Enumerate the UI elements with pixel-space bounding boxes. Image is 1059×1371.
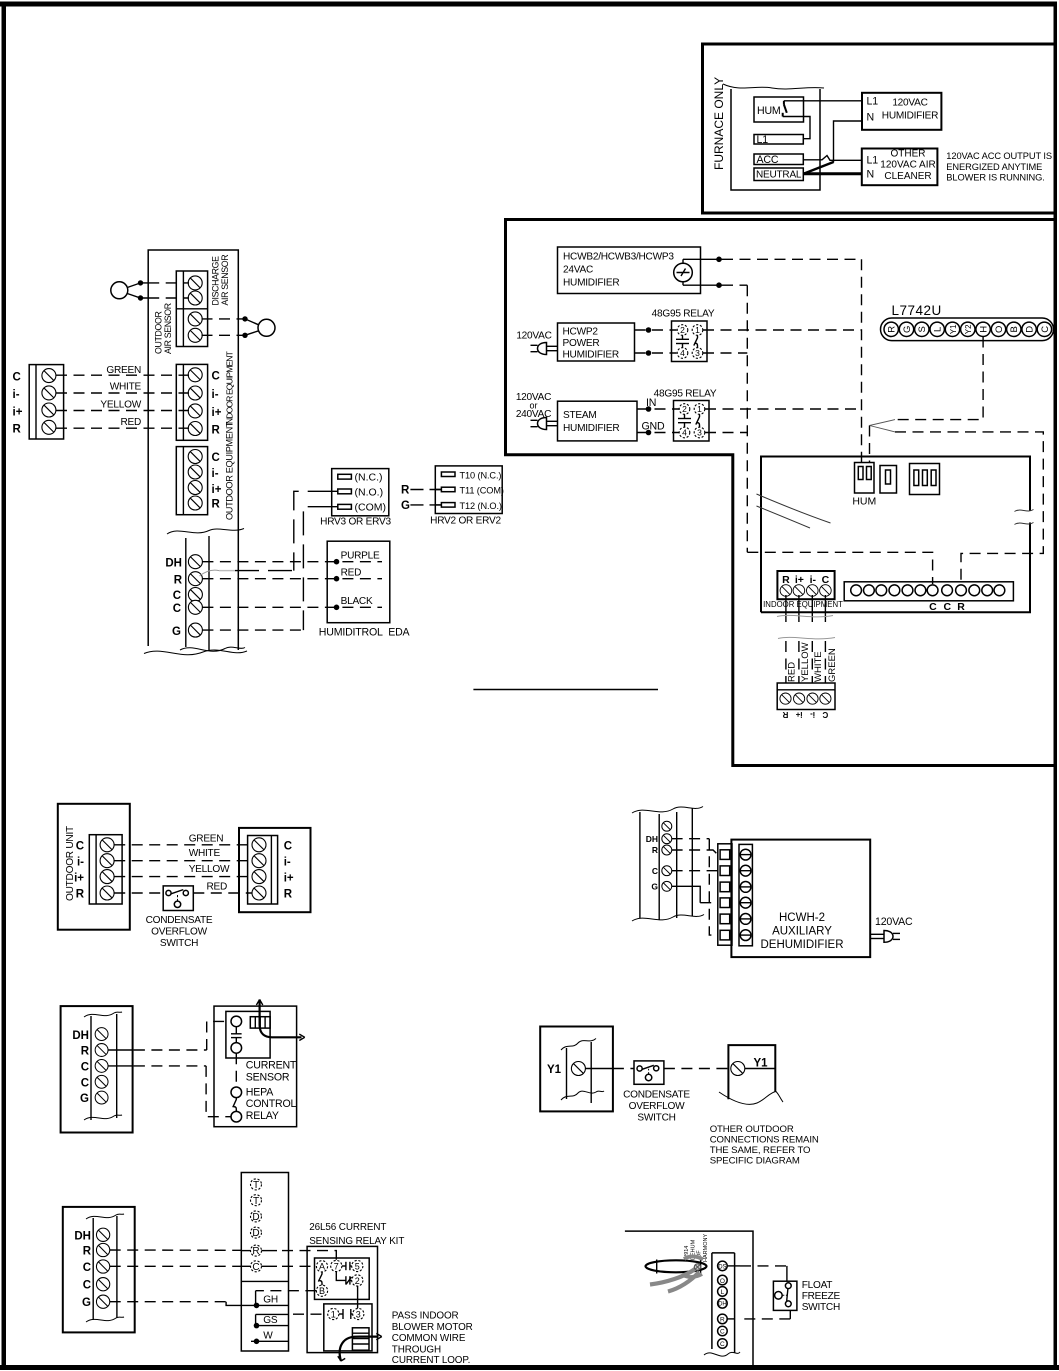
svg-text:HUMIDIFIER: HUMIDIFIER xyxy=(882,111,938,122)
L7742U terminal L xyxy=(930,322,944,336)
wire right loop to R terminal xyxy=(895,432,1043,584)
capacitor 1-3 xyxy=(339,1309,353,1319)
svg-text:i+: i+ xyxy=(74,873,84,885)
wire DH to square6 xyxy=(672,839,718,935)
svg-text:3: 3 xyxy=(356,1309,361,1319)
svg-text:i-: i- xyxy=(212,389,219,401)
svg-text:HUMIDITROL EDA: HUMIDITROL EDA xyxy=(319,627,411,639)
L7742U terminal G xyxy=(899,322,913,336)
pliers graphic xyxy=(650,1256,703,1291)
outdoor air sensor bulb xyxy=(258,319,275,336)
right block labels xyxy=(284,841,294,901)
svg-text:T: T xyxy=(253,1196,259,1207)
HEPA control relay xyxy=(231,1087,242,1122)
L7742U terminal D xyxy=(1022,322,1036,336)
svg-text:B: B xyxy=(319,1286,325,1296)
svg-text:H: H xyxy=(979,326,990,333)
svg-text:1: 1 xyxy=(695,325,700,335)
relay2 pin 1 xyxy=(694,404,705,415)
terminal L1 xyxy=(754,134,803,146)
DH strip bottom tear xyxy=(180,647,245,651)
svg-text:DH: DH xyxy=(74,1231,91,1243)
svg-text:RED: RED xyxy=(341,568,362,579)
right terminal block xyxy=(248,836,278,905)
svg-text:i-: i- xyxy=(13,389,20,401)
svg-text:O: O xyxy=(720,1278,725,1285)
wire panel G to GH xyxy=(110,1302,289,1309)
48G95 relay 1 box xyxy=(672,321,708,362)
outdoor unit labels xyxy=(74,841,85,901)
right panel (indoor) xyxy=(239,828,311,912)
relay inner box 1 xyxy=(315,1258,370,1299)
wire ACC to L1 air cleaner xyxy=(803,156,862,161)
RED label and dot xyxy=(334,568,361,582)
R to HRV3 leader xyxy=(200,570,294,576)
furnace panel xyxy=(723,84,824,190)
indoor equipment terminal labels xyxy=(212,371,222,437)
svg-text:WHITE: WHITE xyxy=(813,651,824,682)
svg-text:(N.C.): (N.C.) xyxy=(355,472,383,484)
wire YELLOW xyxy=(56,410,189,412)
svg-text:C: C xyxy=(944,601,952,613)
svg-text:R: R xyxy=(174,575,183,587)
wire HCWP2 to relay1 pin2 xyxy=(635,327,677,333)
svg-text:i+: i+ xyxy=(284,873,294,885)
wire relay2 pin1 to HUM trunk xyxy=(705,408,862,410)
switch A-B xyxy=(318,1272,322,1285)
indoor equipment screws xyxy=(780,585,831,597)
svg-text:C: C xyxy=(822,574,830,586)
plug symbol steam xyxy=(531,418,558,430)
plug symbol HCWP2 xyxy=(531,343,558,355)
svg-text:SWITCH: SWITCH xyxy=(160,938,198,949)
FLOAT FREEZE SWITCH label xyxy=(802,1280,841,1313)
wire HUM to L1 humidifier xyxy=(784,100,862,102)
wire Y1 to switch xyxy=(585,1068,634,1070)
svg-text:YELLOW: YELLOW xyxy=(100,400,141,411)
svg-text:RED: RED xyxy=(207,881,228,892)
wire C to relay pin A xyxy=(282,1265,316,1267)
svg-text:R: R xyxy=(83,1246,92,1258)
svg-text:HUM: HUM xyxy=(852,496,876,508)
svg-text:Y1: Y1 xyxy=(754,1058,769,1070)
svg-text:C: C xyxy=(1040,326,1051,333)
relay1 pin 4 xyxy=(677,348,688,359)
svg-text:STEAM: STEAM xyxy=(563,410,597,421)
panel screws xyxy=(96,1228,109,1308)
left dashed trunk wire x747 xyxy=(746,285,748,552)
svg-text:48G95 RELAY: 48G95 RELAY xyxy=(652,309,715,320)
svg-text:THROUGH: THROUGH xyxy=(392,1344,441,1355)
svg-text:CURRENT LOOP.: CURRENT LOOP. xyxy=(392,1355,470,1366)
outdoor air sensor screws xyxy=(188,312,202,342)
C C R labels xyxy=(929,601,965,613)
relay1 switch symbol xyxy=(694,335,698,347)
wire DH to PURPLE xyxy=(202,561,382,563)
svg-text:WHITE: WHITE xyxy=(110,382,142,393)
svg-text:HEPA: HEPA xyxy=(246,1087,274,1099)
svg-text:3: 3 xyxy=(695,348,700,358)
svg-text:OVERFLOW: OVERFLOW xyxy=(629,1101,685,1112)
svg-text:SENSOR: SENSOR xyxy=(246,1072,290,1084)
connector 2 xyxy=(880,466,897,494)
12 terminal strip xyxy=(844,582,1013,601)
panel box xyxy=(61,1006,133,1132)
wire pin B to GH xyxy=(256,1291,317,1306)
discharge air sensor screws xyxy=(188,276,202,305)
svg-text:AIR SENSOR: AIR SENSOR xyxy=(220,255,230,306)
wire pin2 down to pin3 xyxy=(357,1286,359,1308)
DH strip screws xyxy=(188,555,202,637)
svg-text:i+: i+ xyxy=(212,407,222,419)
svg-text:4: 4 xyxy=(682,428,687,438)
svg-text:C: C xyxy=(652,866,658,876)
svg-text:G: G xyxy=(80,1093,89,1105)
svg-text:NEUTRAL: NEUTRAL xyxy=(756,170,802,181)
gray tear across wires lower xyxy=(778,637,835,638)
note text 120VAC ACC xyxy=(946,151,1052,183)
svg-text:i-: i- xyxy=(212,468,219,480)
svg-text:DISCHARGE: DISCHARGE xyxy=(211,256,221,306)
wire left trunk to C terminal xyxy=(747,552,932,584)
svg-text:G: G xyxy=(902,326,913,333)
svg-text:C: C xyxy=(13,372,21,384)
DISCHARGE AIR SENSOR label xyxy=(211,255,231,306)
svg-text:SWITCH: SWITCH xyxy=(802,1302,840,1313)
svg-text:GREEN: GREEN xyxy=(189,834,224,845)
svg-text:C: C xyxy=(720,1329,725,1336)
svg-text:BLOWER IS RUNNING.: BLOWER IS RUNNING. xyxy=(946,173,1044,183)
plug symbol HCWH xyxy=(870,931,900,943)
svg-text:120VAC: 120VAC xyxy=(516,331,551,342)
svg-text:D: D xyxy=(252,1228,259,1239)
wire steam GND to relay2 pin4 xyxy=(637,430,679,436)
wire panel R to sub-base R xyxy=(110,1249,277,1252)
wire C to square2 xyxy=(672,870,718,872)
svg-text:FREEZE: FREEZE xyxy=(802,1291,841,1302)
svg-text:SENSING RELAY KIT: SENSING RELAY KIT xyxy=(309,1236,404,1247)
wire switch to right panel xyxy=(664,1068,729,1070)
HEPA CONTROL RELAY labels xyxy=(246,1087,297,1123)
other 120VAC air cleaner box xyxy=(862,149,938,186)
indoor equipment block xyxy=(176,364,207,440)
wire G to HRV3 COM trunk xyxy=(202,629,303,631)
svg-text:WHITE: WHITE xyxy=(189,848,221,859)
L7742U terminal S xyxy=(915,322,929,336)
svg-text:G: G xyxy=(172,626,181,638)
OUTDOOR AIR SENSOR label xyxy=(154,303,174,354)
wire RED xyxy=(56,427,189,429)
svg-text:AUXILIARY: AUXILIARY xyxy=(772,926,832,938)
pin 3 xyxy=(353,1308,364,1319)
relay1 coil symbol xyxy=(676,335,689,347)
svg-text:PASS INDOOR: PASS INDOOR xyxy=(392,1311,459,1322)
L7742U terminal Y2 xyxy=(961,322,975,336)
svg-text:2: 2 xyxy=(355,1276,360,1286)
wire 24VAC hum top to HUM trunk xyxy=(683,257,862,263)
wire GREEN outdoor xyxy=(114,844,252,846)
outdoor equipment terminal labels xyxy=(212,452,222,511)
svg-text:L7742U: L7742U xyxy=(892,303,942,318)
terminal D1 xyxy=(251,1211,262,1223)
svg-text:120VAC ACC OUTPUT IS: 120VAC ACC OUTPUT IS xyxy=(946,151,1052,161)
120VAC or 240VAC label xyxy=(516,392,551,420)
cable tear marks left xyxy=(757,494,831,528)
pin 7 xyxy=(331,1260,342,1271)
svg-text:R: R xyxy=(212,499,221,511)
L7742U terminal strip xyxy=(881,318,1054,341)
svg-text:OTHER OUTDOOR: OTHER OUTDOOR xyxy=(710,1124,794,1135)
HRV2 terminal stubs xyxy=(435,490,441,505)
svg-text:Y2: Y2 xyxy=(964,325,973,335)
wire NEUTRAL to N air cleaner xyxy=(803,172,862,175)
26L56 labels xyxy=(309,1222,404,1247)
terminal T2 xyxy=(251,1195,262,1207)
svg-text:SWITCH: SWITCH xyxy=(637,1113,675,1124)
svg-text:C: C xyxy=(720,1341,725,1348)
svg-text:D: D xyxy=(252,1212,259,1223)
svg-text:S: S xyxy=(917,326,928,332)
BLACK label and dot xyxy=(334,596,373,610)
relay2 pin 3 xyxy=(694,427,705,438)
L7742U terminal B xyxy=(1007,322,1021,336)
svg-text:O: O xyxy=(994,326,1005,333)
svg-text:T10 (N.C.): T10 (N.C.) xyxy=(460,470,502,480)
page border frame bottom xyxy=(0,1365,1059,1370)
partial panel strip xyxy=(632,807,704,922)
panel inner strip xyxy=(84,1012,122,1120)
svg-text:INDOOR EQUIPMENT: INDOOR EQUIPMENT xyxy=(763,600,843,609)
PURPLE label and dot xyxy=(334,551,380,565)
wire HUM switch bottom to L1 terminal xyxy=(783,117,810,139)
svg-text:120VAC AIR: 120VAC AIR xyxy=(880,160,935,171)
HCWH-2 labels xyxy=(760,912,843,951)
lower block labels upside down R i+ i- C xyxy=(782,710,828,719)
svg-text:FLOAT: FLOAT xyxy=(802,1280,833,1291)
wire panel C to sub-base C xyxy=(110,1265,277,1267)
wire HRV3 NO down to R xyxy=(294,491,332,570)
wire float switch to R xyxy=(727,1310,790,1319)
wire loop graphic xyxy=(646,1260,707,1274)
wire R to relay pin7 xyxy=(282,1251,336,1260)
svg-text:T12 (N.O.): T12 (N.O.) xyxy=(460,501,502,511)
svg-text:i+: i+ xyxy=(795,710,802,719)
panel corner xyxy=(625,1231,753,1365)
wire relay1 pin3 to left trunk xyxy=(703,352,747,354)
svg-text:RED: RED xyxy=(120,417,141,428)
wire YELLOW outdoor xyxy=(114,876,252,878)
svg-text:i-: i- xyxy=(810,710,815,719)
wire relay2 pin3 to left trunk xyxy=(705,432,747,434)
relay2 switch symbol xyxy=(696,414,700,427)
svg-text:120VAC: 120VAC xyxy=(892,98,927,109)
panel labels xyxy=(646,834,659,892)
condensate overflow switch xyxy=(163,886,193,911)
L7742U terminal O xyxy=(991,322,1005,336)
svg-text:GND: GND xyxy=(642,421,665,433)
furnace box outline xyxy=(703,44,1056,213)
equipment inner box xyxy=(761,457,1030,613)
dashed wires to lower block xyxy=(786,641,826,683)
wire relay1 pin1 to HUM trunk xyxy=(703,329,862,331)
W terminal wire xyxy=(251,1339,289,1345)
svg-text:R: R xyxy=(76,889,85,901)
panel inner strip xyxy=(86,1214,124,1322)
wire G to square4 xyxy=(672,886,718,902)
svg-text:R: R xyxy=(782,710,788,719)
svg-text:R: R xyxy=(887,326,898,333)
page border frame left xyxy=(2,2,7,1369)
panel mid tear xyxy=(167,529,244,535)
svg-text:i-: i- xyxy=(284,857,291,869)
Y1 screw xyxy=(571,1062,585,1076)
panel box xyxy=(63,1207,135,1333)
svg-text:C: C xyxy=(81,1077,89,1089)
DH terminal strip lines xyxy=(186,536,209,650)
svg-text:HCWH-2: HCWH-2 xyxy=(779,912,825,924)
svg-text:T: T xyxy=(253,1180,259,1191)
page border frame top xyxy=(0,2,1057,7)
svg-text:OUTDOOR: OUTDOOR xyxy=(154,311,164,354)
svg-text:4: 4 xyxy=(680,348,685,358)
pin A xyxy=(316,1261,327,1272)
svg-text:48G95 RELAY: 48G95 RELAY xyxy=(654,389,717,400)
svg-text:2: 2 xyxy=(680,325,685,335)
wire HRV3 COM down to G xyxy=(303,507,331,630)
wire RED outdoor xyxy=(114,892,252,894)
svg-text:DH: DH xyxy=(165,558,182,570)
svg-text:R: R xyxy=(782,574,790,586)
pin 2 xyxy=(352,1275,363,1286)
R stub to HRV2 T11 xyxy=(401,485,441,497)
svg-text:i-: i- xyxy=(810,574,817,586)
pin B xyxy=(316,1285,327,1296)
svg-text:HUMIDIFIER: HUMIDIFIER xyxy=(563,423,619,434)
terminal R xyxy=(251,1245,262,1257)
sub-base strip xyxy=(241,1173,288,1352)
svg-text:RED: RED xyxy=(787,662,798,682)
left block labels xyxy=(13,372,23,436)
connector 3 xyxy=(910,464,940,495)
svg-text:DH: DH xyxy=(718,1302,727,1308)
svg-text:HRV2 OR ERV2: HRV2 OR ERV2 xyxy=(430,516,501,527)
svg-text:HCWP2: HCWP2 xyxy=(563,327,599,338)
svg-text:ENERGIZED ANYTIME: ENERGIZED ANYTIME xyxy=(946,162,1042,172)
HUM connector xyxy=(852,463,876,508)
condensate overflow switch label Y1 xyxy=(623,1090,690,1124)
wire to outdoor screw 1 xyxy=(202,318,239,320)
pass indoor blower note xyxy=(392,1311,473,1367)
relay1 pin 1 xyxy=(692,325,703,336)
svg-text:R: R xyxy=(652,845,658,855)
svg-text:OTHER: OTHER xyxy=(891,149,926,160)
svg-text:L: L xyxy=(933,327,944,332)
svg-text:C: C xyxy=(83,1280,91,1292)
svg-text:HARMONY: HARMONY xyxy=(703,1234,709,1262)
svg-text:5: 5 xyxy=(355,1261,360,1271)
terminal D2 xyxy=(251,1227,262,1239)
condensate overflow switch label xyxy=(146,915,213,949)
pin 1 xyxy=(328,1308,339,1319)
svg-text:i+: i+ xyxy=(212,484,222,496)
outdoor sensor wires xyxy=(238,316,258,338)
panel screws xyxy=(95,1028,108,1104)
wire to discharge screw 2 xyxy=(148,297,189,299)
svg-text:C: C xyxy=(81,1061,89,1073)
svg-text:GH: GH xyxy=(263,1295,278,1306)
AC source symbol on 24VAC humidifier xyxy=(674,259,693,285)
relay inner box 2 xyxy=(324,1304,372,1351)
terminal ACC xyxy=(754,154,803,166)
current sensor circles and capacitor xyxy=(231,1016,242,1053)
svg-text:SPECIFIC DIAGRAM: SPECIFIC DIAGRAM xyxy=(710,1156,800,1167)
svg-text:C: C xyxy=(929,601,937,613)
relay2 pin 2 xyxy=(679,404,690,415)
svg-text:G: G xyxy=(651,882,658,892)
svg-text:i+: i+ xyxy=(13,407,23,419)
divider rule xyxy=(473,689,658,691)
svg-text:CONNECTIONS REMAIN: CONNECTIONS REMAIN xyxy=(710,1135,819,1146)
wire steam IN to relay2 pin2 xyxy=(637,406,679,412)
48G95 relay 2 box xyxy=(674,401,710,442)
svg-text:R: R xyxy=(81,1046,90,1058)
float freeze switch xyxy=(773,1281,797,1310)
wire N humidifier to NEUTRAL xyxy=(834,121,863,163)
HRV3 terminal stubs xyxy=(332,491,338,506)
L7742U terminal R xyxy=(884,322,898,336)
svg-text:120VAC: 120VAC xyxy=(875,916,913,928)
wires from indoor block down xyxy=(786,595,826,622)
svg-text:HCWB2/HCWB3/HCWP3: HCWB2/HCWB3/HCWP3 xyxy=(563,252,674,263)
wire 24VAC hum bottom to left trunk xyxy=(683,282,747,288)
terminal strip xyxy=(704,1253,740,1356)
svg-text:CURRENT: CURRENT xyxy=(246,1060,297,1072)
svg-text:R: R xyxy=(252,1246,259,1257)
svg-text:HUMIDIFIER: HUMIDIFIER xyxy=(563,278,619,289)
svg-text:C: C xyxy=(284,841,292,853)
svg-text:THE SAME, REFER TO: THE SAME, REFER TO xyxy=(710,1145,811,1156)
HCWP2 power humidifier box xyxy=(558,323,635,361)
steam humidifier box xyxy=(558,401,638,441)
svg-text:N: N xyxy=(867,169,874,181)
wire GREEN xyxy=(56,374,189,376)
svg-text:24VAC: 24VAC xyxy=(563,265,593,276)
indoor equipment terminal block xyxy=(777,571,834,599)
terminal strip col1 xyxy=(718,844,732,945)
outdoor unit panel xyxy=(58,804,130,930)
terminal NEUTRAL xyxy=(754,168,803,181)
strip terminals xyxy=(718,1261,728,1348)
capacitor 7-5 xyxy=(342,1262,352,1270)
other outdoor connections note xyxy=(710,1124,819,1167)
relay2 coil symbol xyxy=(678,414,691,427)
svg-text:W: W xyxy=(263,1331,273,1342)
big box outline xyxy=(506,220,1056,766)
HUM trunk vertical wire xyxy=(861,259,863,462)
wire WHITE xyxy=(56,392,189,394)
wire NEUTRAL diagonal xyxy=(804,162,834,174)
svg-text:D: D xyxy=(1025,326,1036,333)
svg-text:DEHUMIDIFIER: DEHUMIDIFIER xyxy=(760,939,843,951)
wire R to current sensor xyxy=(108,1021,231,1050)
wire to discharge screw 1 xyxy=(148,282,189,284)
svg-text:i-: i- xyxy=(77,857,84,869)
svg-text:DH: DH xyxy=(72,1030,89,1042)
panel labels xyxy=(74,1231,91,1310)
Y1 inner strip xyxy=(561,1039,604,1104)
Y1 left box xyxy=(540,1027,613,1112)
current sensor box xyxy=(226,1011,270,1058)
